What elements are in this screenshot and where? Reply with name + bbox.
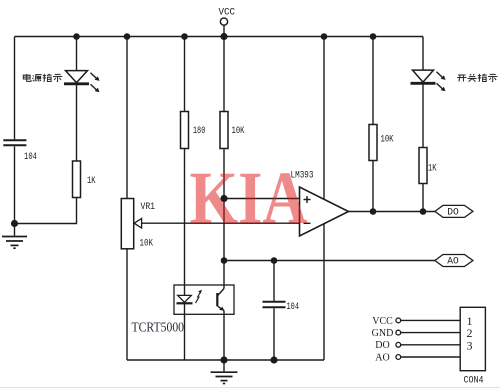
svg-text:1K: 1K xyxy=(87,175,96,187)
label 开关指示 (switch indicator) xyxy=(457,74,497,82)
resistor 10K (right pullup) xyxy=(369,125,377,161)
LED D1 power indicator xyxy=(64,71,100,93)
wire collector bend xyxy=(218,289,224,296)
wire emitter bend xyxy=(218,306,224,310)
resistor 1K (left) xyxy=(73,161,81,198)
wire cap2 bottom xyxy=(273,308,275,360)
svg-text:DO: DO xyxy=(375,340,389,351)
wire left column lower xyxy=(14,146,16,223)
wire left column upper xyxy=(14,37,16,140)
wire CON4 pin1 xyxy=(401,319,460,321)
svg-text:GND: GND xyxy=(372,328,394,339)
resistor 10K (left) xyxy=(220,112,228,149)
capacitor C1 104 plates xyxy=(3,140,26,145)
wire 10K pullup bottom xyxy=(372,161,374,212)
svg-text:VCC: VCC xyxy=(372,316,393,327)
wire 10K column top xyxy=(223,37,225,112)
svg-text:AO: AO xyxy=(375,352,389,363)
svg-text:TCRT5000: TCRT5000 xyxy=(132,320,185,335)
wire DO line xyxy=(349,211,437,213)
wire inverting input from VR1 wiper xyxy=(141,222,300,224)
wire VR1 bottom xyxy=(126,249,128,360)
connector CON4 box xyxy=(460,307,485,370)
opto phototransistor xyxy=(217,293,224,311)
wire switch LED column top xyxy=(422,37,424,71)
port tag DO xyxy=(435,205,473,217)
op-amp U1 LM393 xyxy=(300,187,349,236)
port tag AO xyxy=(435,255,473,267)
opto LED xyxy=(177,295,193,303)
svg-text:CON4: CON4 xyxy=(464,376,484,387)
wire top rail xyxy=(15,36,424,38)
resistor 1K (right) xyxy=(419,148,427,184)
wire CON4 pin2 xyxy=(401,332,460,334)
wire LED to R 1K xyxy=(76,83,78,161)
wire cap2 top xyxy=(273,261,275,301)
wire noninverting input xyxy=(224,198,300,200)
svg-text:1K: 1K xyxy=(428,163,437,175)
svg-text:104: 104 xyxy=(287,301,300,313)
CON4 pad circles xyxy=(396,318,401,359)
capacitor C2 104 plates xyxy=(263,302,286,308)
svg-text:10K: 10K xyxy=(140,238,154,250)
wire VR1 top xyxy=(126,37,128,199)
svg-text:AO: AO xyxy=(447,257,459,268)
wire op-amp supply column xyxy=(323,37,325,361)
wire 10K pullup top xyxy=(372,37,374,125)
svg-text:3: 3 xyxy=(467,338,473,352)
VCC terminal circle xyxy=(220,18,227,25)
ground (bottom) xyxy=(211,360,238,384)
potentiometer VR1 wiper arrow xyxy=(134,218,141,228)
wire 180 bottom to opto LED xyxy=(184,149,186,296)
wire 1K to DO line xyxy=(422,184,424,212)
opto light arrow xyxy=(196,290,202,303)
opto-isolator TCRT5000 box xyxy=(174,285,234,314)
svg-text:10K: 10K xyxy=(381,134,394,146)
wire CON4 pin4 xyxy=(401,356,460,358)
svg-text:KIA: KIA xyxy=(190,157,308,240)
wire power LED column xyxy=(76,37,78,71)
svg-text:180: 180 xyxy=(193,125,206,137)
svg-text:VR1: VR1 xyxy=(141,201,156,213)
ground (left) xyxy=(2,224,27,249)
wire opto LED cathode to bottom rail xyxy=(184,303,186,360)
LED D2 switch indicator xyxy=(411,70,446,91)
wire switch LED to 1K xyxy=(422,83,424,148)
wire 10K bottom through nodes to collector xyxy=(223,149,225,289)
svg-text:104: 104 xyxy=(24,151,37,163)
wire bottom rail xyxy=(127,359,324,361)
wire 1K bottom to ground node xyxy=(15,198,77,224)
label 电源指示 (power indicator) xyxy=(23,74,62,82)
CON4 pin labels (serif) xyxy=(372,316,394,364)
svg-text:VCC: VCC xyxy=(219,7,236,19)
potentiometer VR1 body xyxy=(121,199,133,249)
wire AO line xyxy=(224,260,436,262)
wire 180 column top xyxy=(184,37,186,112)
CON4 pin numbers xyxy=(467,314,473,352)
page rule (faint bottom line) xyxy=(0,387,500,389)
wire emitter to bottom rail xyxy=(223,311,225,360)
svg-text:DO: DO xyxy=(447,208,459,219)
wire CON4 pin3 xyxy=(401,344,460,346)
wire VCC stem xyxy=(223,25,225,36)
svg-text:10K: 10K xyxy=(232,125,245,137)
resistor 180 xyxy=(181,112,189,149)
